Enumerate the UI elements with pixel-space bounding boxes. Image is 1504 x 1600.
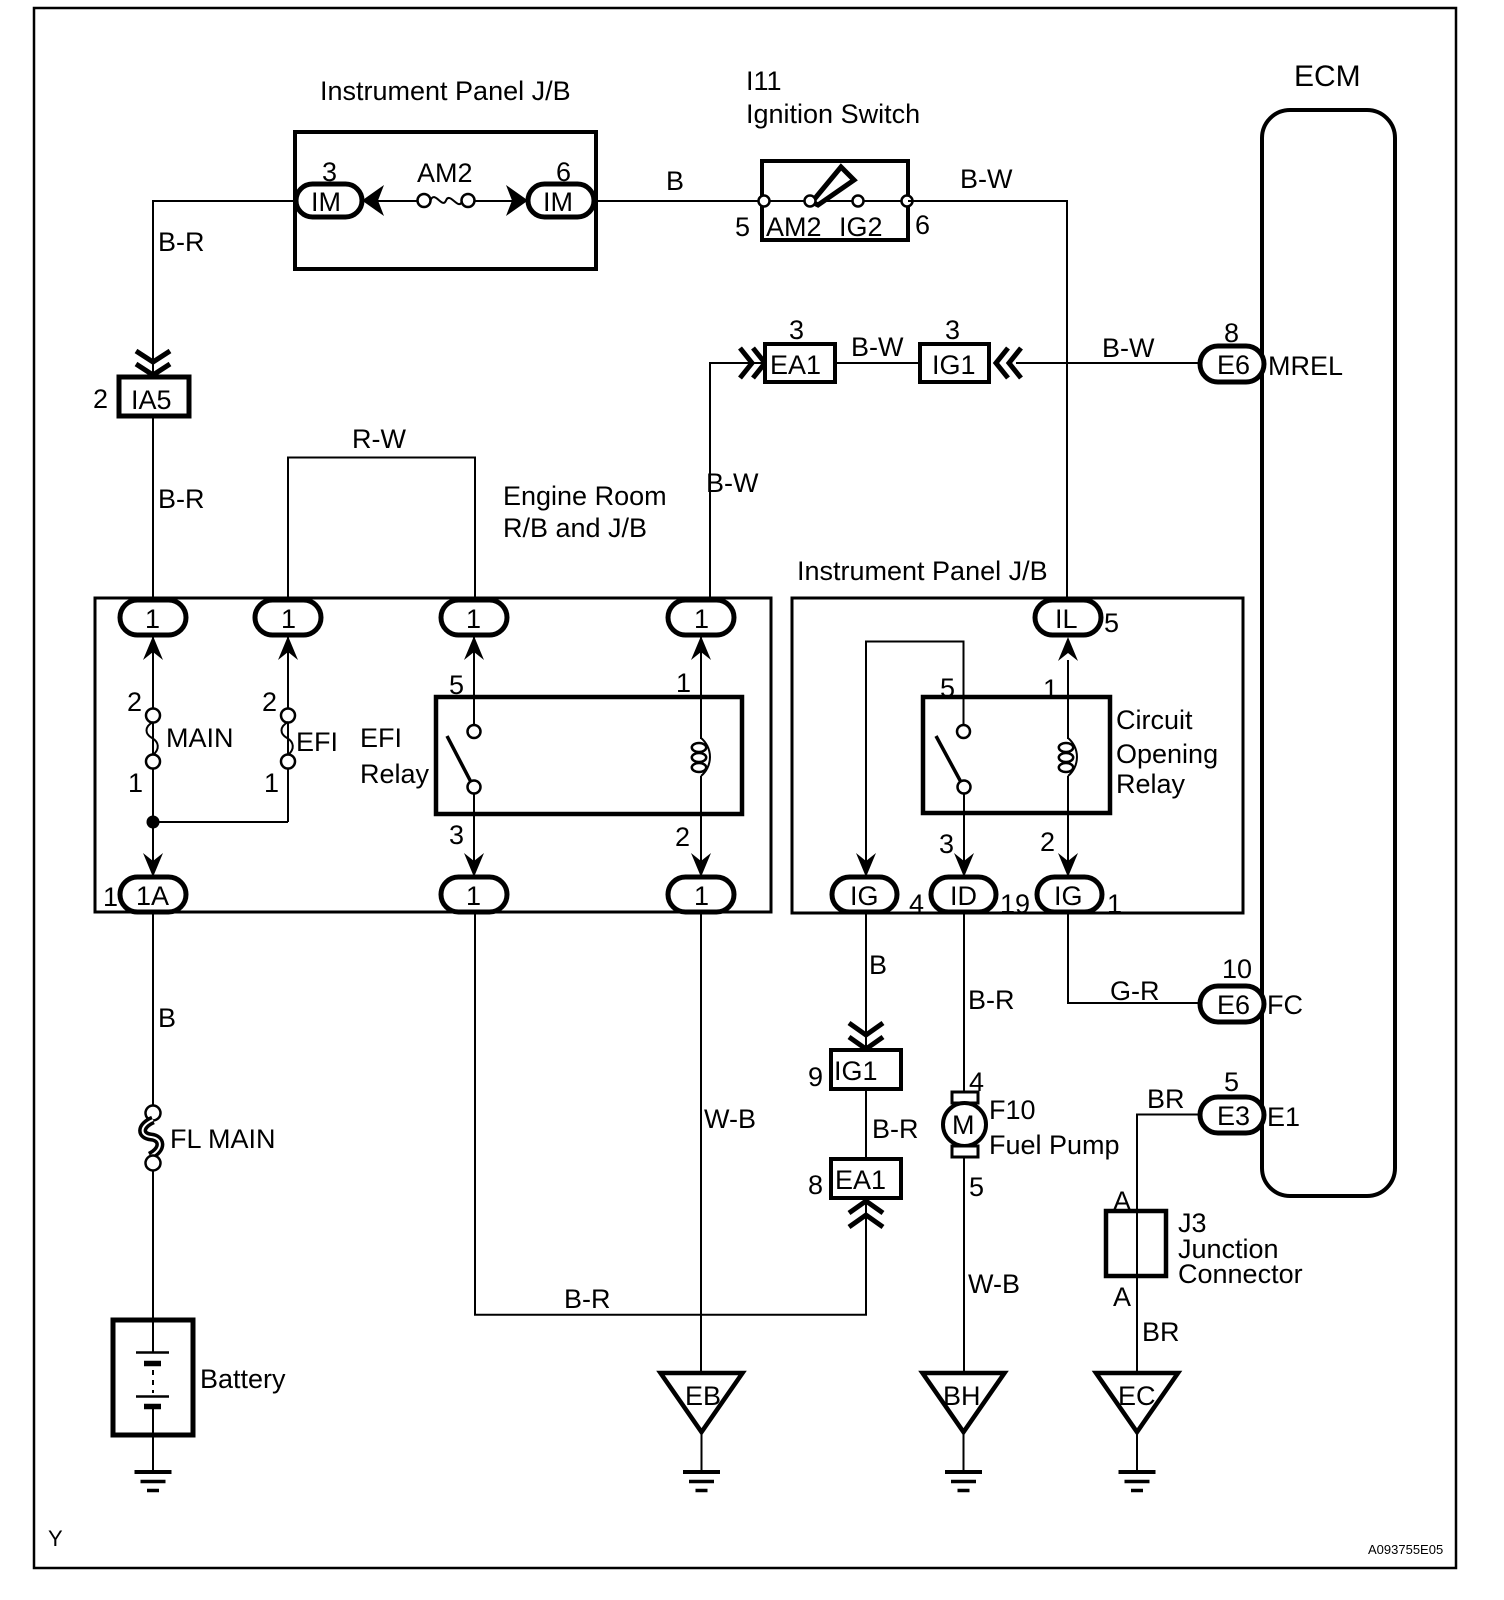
COR coil bbox=[1068, 738, 1077, 776]
relay contact blade EFI bbox=[447, 736, 472, 784]
svg-text:2: 2 bbox=[127, 687, 142, 717]
svg-text:B-R: B-R bbox=[158, 227, 205, 257]
arrow down into ID bbox=[954, 853, 974, 877]
wire EFI fuse column bbox=[287, 635, 289, 822]
ground EC bbox=[1119, 1470, 1156, 1474]
ground triangle EB bbox=[661, 1373, 743, 1432]
svg-text:5: 5 bbox=[449, 670, 464, 700]
arrow down into 1A oval bbox=[143, 853, 163, 877]
connector E3 oval bbox=[1200, 1097, 1264, 1133]
arrow up into oval (EFI) bbox=[278, 636, 298, 660]
svg-text:B-R: B-R bbox=[564, 1284, 611, 1314]
svg-text:Opening: Opening bbox=[1116, 739, 1218, 769]
connector IG1 box (lower) bbox=[831, 1050, 901, 1089]
svg-text:4: 4 bbox=[909, 889, 924, 919]
wire EC apex to ground bbox=[1136, 1432, 1138, 1471]
COR contact blade bbox=[936, 736, 962, 784]
svg-text:19: 19 bbox=[1000, 889, 1030, 919]
svg-text:2: 2 bbox=[1040, 827, 1055, 857]
svg-text:G-R: G-R bbox=[1110, 976, 1160, 1006]
connector oval 1 (MAIN top) bbox=[120, 600, 186, 635]
svg-text:FC: FC bbox=[1267, 990, 1303, 1020]
svg-text:MREL: MREL bbox=[1268, 351, 1343, 381]
svg-text:EFI: EFI bbox=[360, 723, 402, 753]
wire BH apex to ground bbox=[963, 1432, 965, 1471]
connector E6 FC oval bbox=[1200, 986, 1264, 1022]
svg-text:1: 1 bbox=[128, 768, 143, 798]
battery plate - (short thick) bbox=[144, 1361, 161, 1367]
svg-text:A: A bbox=[1113, 1282, 1131, 1312]
svg-text:Y: Y bbox=[48, 1526, 63, 1551]
arrow up into oval (relay5) bbox=[464, 636, 484, 660]
wire EB apex to ground bbox=[701, 1432, 703, 1471]
svg-text:B-W: B-W bbox=[960, 164, 1013, 194]
svg-text:I11: I11 bbox=[746, 66, 782, 96]
connector oval 1 (relay3 bottom) bbox=[441, 877, 507, 912]
engine room R/B and J/B box bbox=[95, 598, 771, 912]
svg-text:R/B and J/B: R/B and J/B bbox=[503, 513, 647, 543]
connector oval 1 (coil bottom) bbox=[668, 877, 734, 912]
svg-text:A093755E05: A093755E05 bbox=[1368, 1542, 1443, 1557]
relay pin3 stub bbox=[473, 793, 475, 814]
svg-text:Relay: Relay bbox=[360, 759, 430, 789]
battery dashed link bbox=[152, 1370, 154, 1393]
battery plate - (short thick 2) bbox=[144, 1404, 161, 1410]
connector EA1 box (lower) bbox=[831, 1159, 901, 1198]
ground EB bbox=[683, 1470, 720, 1474]
relay coil EFI bbox=[701, 738, 710, 776]
wire IL to relay coil bbox=[1067, 660, 1069, 697]
connector IG1 box bbox=[920, 344, 989, 382]
arrow down into IG (left) bbox=[856, 853, 876, 877]
R-W loop wire bbox=[288, 458, 475, 601]
relay coil pin2 stub bbox=[700, 776, 702, 814]
svg-text:B-W: B-W bbox=[706, 468, 759, 498]
svg-text:10: 10 bbox=[1222, 954, 1252, 984]
svg-text:E3: E3 bbox=[1217, 1101, 1250, 1131]
connector IM (3) bbox=[296, 184, 362, 217]
battery internal wire top bbox=[152, 1322, 154, 1352]
svg-text:5: 5 bbox=[735, 212, 750, 242]
svg-text:E6: E6 bbox=[1217, 990, 1250, 1020]
connector oval IG (4) bbox=[832, 877, 897, 912]
svg-text:AM2: AM2 bbox=[417, 158, 473, 188]
wire W-B fuel pump to BH bbox=[963, 1157, 965, 1373]
arrows into IA5 (double chevron down) bbox=[136, 351, 170, 362]
wire EFI relay pin3 column bbox=[473, 793, 475, 878]
wire inside ignition switch bbox=[762, 200, 908, 202]
wire BR E3 to junction bbox=[1137, 1115, 1200, 1374]
wire COR coil down to IG bbox=[1067, 776, 1069, 878]
svg-text:EFI: EFI bbox=[296, 727, 338, 757]
wire COR pin3 down bbox=[963, 793, 965, 878]
svg-text:ECM: ECM bbox=[1294, 60, 1361, 93]
wire B-R relay3 down and across bbox=[475, 912, 866, 1315]
wire inside J/B fuse AM2 left bbox=[362, 200, 418, 202]
COR coil pin2 stub bbox=[1067, 776, 1069, 813]
connector oval 1 (EFI top) bbox=[255, 600, 321, 635]
svg-text:IG2: IG2 bbox=[839, 212, 883, 242]
junction dot bbox=[147, 816, 160, 829]
svg-text:IM: IM bbox=[311, 187, 341, 217]
ignition switch I11 box bbox=[762, 161, 908, 240]
svg-text:EB: EB bbox=[685, 1381, 721, 1411]
instrument panel J/B box bbox=[295, 132, 596, 269]
svg-text:B-W: B-W bbox=[851, 332, 904, 362]
COR contact bottom circle bbox=[958, 781, 971, 794]
svg-text:E1: E1 bbox=[1267, 1102, 1300, 1132]
wire B-R from IM3 to IA5 bbox=[153, 201, 296, 377]
svg-text:6: 6 bbox=[915, 210, 930, 240]
wire B IG4 down bbox=[865, 912, 867, 1050]
svg-text:BR: BR bbox=[1147, 1084, 1185, 1114]
svg-text:E6: E6 bbox=[1217, 350, 1250, 380]
svg-text:1: 1 bbox=[676, 668, 691, 698]
svg-text:BH: BH bbox=[943, 1381, 981, 1411]
fusible link FL MAIN bbox=[146, 1106, 161, 1121]
arrows into IG1 (double chevron left) bbox=[996, 348, 1008, 378]
svg-text:Circuit: Circuit bbox=[1116, 705, 1193, 735]
svg-text:1: 1 bbox=[466, 604, 481, 634]
wire W-B EB column bbox=[700, 912, 702, 1373]
svg-text:EA1: EA1 bbox=[770, 350, 821, 380]
svg-text:W-B: W-B bbox=[968, 1269, 1020, 1299]
svg-text:Instrument Panel J/B: Instrument Panel J/B bbox=[797, 556, 1048, 586]
connector oval 1 (coil top) bbox=[668, 600, 734, 635]
COR pin5 stub bbox=[963, 697, 965, 726]
connector EA1 box bbox=[765, 344, 835, 382]
arrow down into IG (right) bbox=[1058, 853, 1078, 877]
COR pin3 stub bbox=[963, 793, 965, 813]
circuit opening relay box bbox=[923, 697, 1110, 813]
wire B from IM6 to ignition switch bbox=[594, 200, 764, 202]
svg-text:BR: BR bbox=[1142, 1317, 1180, 1347]
fuel pump F10 bbox=[952, 1092, 978, 1103]
svg-text:1: 1 bbox=[145, 604, 160, 634]
svg-text:Connector: Connector bbox=[1178, 1259, 1303, 1289]
relay coil pin1 stub bbox=[700, 697, 702, 739]
ECM body bbox=[1262, 110, 1395, 1196]
svg-text:Relay: Relay bbox=[1116, 769, 1186, 799]
connector oval IL bbox=[1035, 600, 1101, 635]
arrow up into oval (MAIN) bbox=[143, 636, 163, 660]
svg-text:Engine Room: Engine Room bbox=[503, 481, 667, 511]
svg-text:1A: 1A bbox=[136, 881, 169, 911]
connector IA5 box bbox=[119, 377, 189, 416]
arrows into EA1 (double chevron right) bbox=[740, 348, 752, 378]
arrow into IM6 (right pointing) bbox=[506, 185, 528, 216]
battery internal wire bottom bbox=[152, 1408, 154, 1435]
svg-text:2: 2 bbox=[675, 822, 690, 852]
connector oval 1A bbox=[120, 877, 186, 912]
svg-text:1: 1 bbox=[694, 604, 709, 634]
connector oval IG (1) bbox=[1037, 877, 1102, 912]
arrow up into IL bbox=[1058, 637, 1078, 661]
svg-text:EC: EC bbox=[1118, 1381, 1156, 1411]
svg-text:5: 5 bbox=[1224, 1067, 1239, 1097]
svg-text:IL: IL bbox=[1055, 604, 1078, 634]
switch terminal 5 bbox=[759, 196, 770, 207]
svg-text:3: 3 bbox=[449, 820, 464, 850]
switch terminal IG2 bbox=[853, 196, 864, 207]
svg-text:1: 1 bbox=[1107, 889, 1122, 919]
wire B-W from vertical to EA1 arrows bbox=[710, 363, 765, 600]
svg-text:Fuel Pump: Fuel Pump bbox=[989, 1130, 1120, 1160]
fuse EFI symbol bbox=[281, 709, 295, 723]
svg-text:1: 1 bbox=[466, 881, 481, 911]
svg-text:B: B bbox=[666, 166, 684, 196]
svg-text:R-W: R-W bbox=[352, 424, 406, 454]
svg-text:2: 2 bbox=[262, 687, 277, 717]
ground triangle EC bbox=[1096, 1373, 1178, 1432]
svg-text:1: 1 bbox=[1043, 674, 1058, 704]
svg-text:Battery: Battery bbox=[200, 1364, 286, 1394]
connector E6 MREL oval bbox=[1200, 346, 1264, 382]
battery plate + (long 2) bbox=[136, 1395, 169, 1398]
svg-text:IG1: IG1 bbox=[932, 350, 976, 380]
svg-text:IG: IG bbox=[1054, 881, 1083, 911]
connector IM (6) bbox=[528, 184, 594, 217]
svg-text:IM: IM bbox=[543, 187, 573, 217]
wire B-R IG1 to EA1 bbox=[865, 1089, 867, 1159]
svg-text:IG: IG bbox=[850, 881, 879, 911]
connector oval 1 (relay5 top) bbox=[441, 600, 507, 635]
switch lever bbox=[812, 167, 854, 205]
battery box bbox=[113, 1320, 193, 1435]
wire MAIN fuse column bbox=[152, 635, 154, 878]
svg-text:1: 1 bbox=[103, 882, 118, 912]
COR coil pin1 stub bbox=[1067, 697, 1069, 739]
fuse AM2 symbol bbox=[418, 194, 431, 207]
connector oval ID (19) bbox=[931, 877, 996, 912]
wire G-R IG1 to ECM FC bbox=[1068, 912, 1200, 1003]
ground battery bbox=[135, 1470, 172, 1474]
wire B-W IG1 to ECM E6 bbox=[1016, 362, 1201, 364]
svg-text:1: 1 bbox=[264, 768, 279, 798]
wire B-W ignition switch to IL vertical bbox=[908, 201, 1067, 601]
svg-text:AM2: AM2 bbox=[766, 212, 822, 242]
battery plate + (long) bbox=[136, 1351, 169, 1354]
svg-text:3: 3 bbox=[939, 829, 954, 859]
svg-text:3: 3 bbox=[789, 315, 804, 345]
svg-text:EA1: EA1 bbox=[835, 1165, 886, 1195]
wire inside J/B fuse AM2 right bbox=[474, 200, 530, 202]
svg-text:B-R: B-R bbox=[158, 484, 205, 514]
arrows out of EA1 lower (double chevron up) bbox=[849, 1201, 883, 1213]
svg-text:B: B bbox=[158, 1003, 176, 1033]
svg-text:2: 2 bbox=[93, 384, 108, 414]
svg-text:Ignition Switch: Ignition Switch bbox=[746, 99, 920, 129]
svg-text:5: 5 bbox=[940, 673, 955, 703]
svg-text:Instrument Panel J/B: Instrument Panel J/B bbox=[320, 76, 571, 106]
svg-text:1: 1 bbox=[694, 881, 709, 911]
svg-text:B-R: B-R bbox=[968, 985, 1015, 1015]
ground triangle BH bbox=[923, 1373, 1005, 1432]
wire IG4 up over to relay pin5 bbox=[866, 642, 964, 879]
svg-text:F10: F10 bbox=[989, 1095, 1036, 1125]
junction connector J3 box bbox=[1106, 1211, 1166, 1276]
svg-text:B: B bbox=[869, 950, 887, 980]
fuse MAIN symbol bbox=[146, 709, 160, 723]
svg-text:3: 3 bbox=[945, 315, 960, 345]
svg-text:5: 5 bbox=[969, 1172, 984, 1202]
switch terminal AM2 bbox=[805, 196, 816, 207]
svg-text:8: 8 bbox=[808, 1170, 823, 1200]
wire EFI relay pin5 column bbox=[473, 635, 475, 726]
arrows into IG1 lower (double chevron down) bbox=[849, 1023, 883, 1035]
ground BH bbox=[945, 1470, 982, 1474]
svg-text:9: 9 bbox=[808, 1062, 823, 1092]
wire B-R IA5 down to engine room J/B bbox=[152, 416, 154, 600]
EFI relay box bbox=[436, 697, 742, 814]
svg-text:B-R: B-R bbox=[872, 1114, 919, 1144]
svg-text:M: M bbox=[952, 1110, 975, 1140]
wire battery to ground bbox=[152, 1435, 154, 1471]
svg-text:W-B: W-B bbox=[704, 1104, 756, 1134]
arrow up into oval (coil) bbox=[691, 636, 711, 660]
svg-text:1: 1 bbox=[281, 604, 296, 634]
svg-text:MAIN: MAIN bbox=[166, 723, 234, 753]
relay contact bottom circle bbox=[468, 781, 481, 794]
svg-text:5: 5 bbox=[1104, 608, 1119, 638]
arrow down into oval (coil bottom) bbox=[691, 853, 711, 877]
svg-text:ID: ID bbox=[950, 881, 977, 911]
relay pin5 stub bbox=[473, 697, 475, 726]
COR contact top circle bbox=[957, 725, 970, 738]
svg-text:IG1: IG1 bbox=[834, 1056, 878, 1086]
arrow down into oval (relay3 bottom) bbox=[464, 853, 484, 877]
arrow into IM3 (left pointing) bbox=[362, 185, 384, 216]
switch terminal 6 bbox=[902, 196, 913, 207]
wire B battery column bbox=[152, 912, 154, 1107]
svg-text:IA5: IA5 bbox=[131, 385, 172, 415]
wire EFI relay coil column bbox=[700, 635, 702, 878]
wire B-W EA1 to IG1 bbox=[835, 362, 920, 364]
wire B-R ID down to fuel pump bbox=[963, 912, 965, 1094]
instrument panel J/B box 2 bbox=[792, 598, 1243, 913]
wire junction MAIN to EFI bbox=[153, 821, 288, 823]
svg-text:FL MAIN: FL MAIN bbox=[170, 1124, 276, 1154]
svg-text:B-W: B-W bbox=[1102, 333, 1155, 363]
wire FL MAIN to battery bbox=[152, 1170, 154, 1322]
relay contact top circle bbox=[468, 725, 481, 738]
